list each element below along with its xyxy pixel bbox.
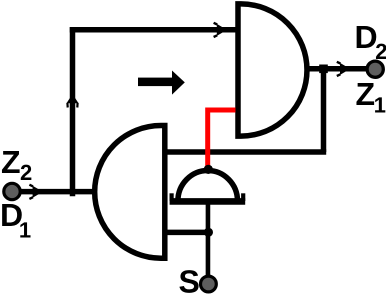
inverter dome body [178, 170, 238, 201]
arrowhead on vertical riser (pointing up) [67, 94, 79, 108]
terminal circle S [201, 276, 217, 292]
wire: vertical riser from input wire up to top wire [70, 27, 76, 196]
upper AND gate body [238, 4, 307, 136]
arrowhead on output wire [337, 62, 350, 76]
label Z2 [2, 151, 31, 180]
label D2 [357, 26, 386, 59]
arrowhead on input wire [29, 185, 42, 199]
label S [179, 270, 198, 293]
bold mode arrow symbol [138, 71, 185, 95]
terminal circle D2/Z1 [367, 61, 383, 77]
inverter base line [170, 198, 246, 205]
junction dot at output feedback tap [319, 65, 328, 74]
inverter base left tick [170, 193, 174, 201]
junction dot stem/gate wire [204, 228, 213, 237]
wire: top horizontal to upper gate input [70, 27, 237, 33]
terminal circle Z2/D1 [4, 183, 20, 199]
red control wire from inverter dome to upper gate [208, 108, 236, 169]
junction dot on dome top (red wire tap) [204, 165, 213, 174]
inverter base right tick [241, 193, 245, 201]
wire: input from Z2/D1 terminal to left gate [19, 189, 96, 195]
wire: feedback vertical down from output [321, 69, 327, 152]
wire: output of upper gate to D2/Z1 terminal [306, 66, 367, 72]
wire: feedback horizontal back to left gate output edge [162, 149, 326, 155]
arrowhead on top wire at upper gate input [214, 23, 227, 37]
wire: left gate edge to inverter stem [162, 230, 211, 236]
inverter stem down to S terminal [206, 201, 211, 276]
label Z1 [356, 83, 385, 113]
label D1 [2, 204, 30, 238]
left AND gate body (pointing left) [95, 126, 165, 259]
